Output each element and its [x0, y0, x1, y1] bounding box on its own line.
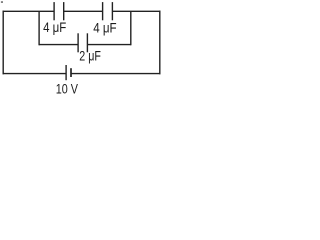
wire right riser to middle branch	[130, 11, 132, 45]
wire top segment 1	[3, 10, 55, 12]
capacitor C1 4uF right plate	[63, 2, 65, 20]
wire middle branch left	[39, 44, 78, 46]
capacitor C1 4uF left plate	[53, 2, 55, 20]
battery B1 long plate	[65, 65, 67, 80]
wire bottom segment 2	[71, 73, 161, 75]
wire left riser to middle branch	[38, 11, 40, 45]
capacitor C2 4uF left plate	[102, 2, 104, 20]
svg-text:10 V: 10 V	[56, 82, 79, 98]
svg-text:4 μF: 4 μF	[93, 20, 117, 36]
wire left edge	[2, 11, 4, 75]
capacitor C3 2uF left plate	[77, 33, 79, 52]
svg-text:4 μF: 4 μF	[43, 20, 66, 36]
wire middle branch right	[87, 44, 130, 46]
battery B1 short plate	[70, 68, 72, 77]
svg-text:2 μF: 2 μF	[79, 49, 101, 65]
wire top segment 3	[112, 10, 160, 12]
wire right edge	[159, 11, 161, 75]
wire bottom segment 1	[3, 73, 67, 75]
capacitor C2 4uF right plate	[111, 2, 113, 20]
wire top segment 2	[64, 10, 103, 12]
capacitor C3 2uF right plate	[86, 33, 88, 52]
stray mark top-left	[1, 1, 3, 2]
